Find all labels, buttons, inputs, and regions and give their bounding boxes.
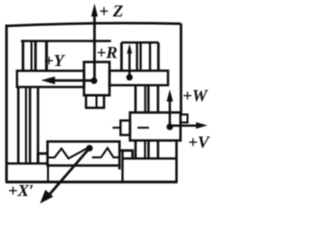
svg-text:+Y: +Y [44, 51, 66, 70]
spindle head block [84, 62, 110, 95]
axis arrow +Y shaft [53, 79, 94, 81]
inner top rail line [21, 40, 111, 42]
axis arrow +V shaft [170, 124, 198, 126]
right base block [121, 151, 123, 183]
dash inside headstock [138, 127, 150, 129]
quill divider [96, 95, 98, 108]
right base top edge [123, 157, 177, 159]
left column upper guideway hatch [23, 41, 47, 72]
machine bed bottom edge [6, 181, 178, 184]
axis arrow +R shaft [128, 50, 130, 77]
axis arrow +R head [127, 44, 132, 54]
axis line +Z shaft [93, 14, 96, 81]
right base right edge [175, 141, 177, 183]
node W/V on headstock [167, 124, 174, 131]
left base right edge [47, 164, 49, 182]
table right edge extension [118, 166, 120, 170]
axis arrow +X' head [40, 190, 53, 204]
axis arrow +X' shaft [46, 148, 90, 199]
left column lower guideway hatch [18, 87, 38, 164]
right column upper guideway hatch [122, 43, 159, 71]
axis arrow +V head [196, 122, 208, 129]
machine outer frame top edge [6, 23, 181, 26]
spindle quill below head [86, 95, 104, 108]
headstock block right [130, 113, 181, 141]
right column mid guideway hatch [136, 85, 159, 112]
left base top edge [7, 162, 49, 164]
axis arrow +Y head [41, 77, 55, 85]
zigzag clamp marks right of node [92, 148, 120, 157]
svg-text:+X′: +X′ [8, 181, 34, 200]
svg-text:+W: +W [183, 86, 210, 105]
node Z/Y on spindle head [91, 77, 98, 84]
cross rail right of spindle head [110, 71, 169, 86]
svg-text:+V: +V [188, 133, 211, 152]
svg-text:+ Z: + Z [99, 2, 123, 21]
node R on cross rail [126, 74, 132, 80]
horizontal ram (Y arm) [17, 71, 84, 87]
spindle center line [113, 127, 121, 129]
zigzag clamp marks left of node [48, 148, 87, 158]
small box right of headstock [181, 115, 188, 123]
work table [48, 142, 120, 166]
notch between table and right base [120, 151, 133, 159]
machine outer frame right edge [180, 24, 183, 115]
axis arrow +W head [167, 90, 173, 102]
node on table (origin of X') [86, 145, 93, 152]
axis arrow +W shaft [169, 100, 171, 127]
spindle nose box left of headstock [121, 121, 131, 136]
axis arrow +Z head [91, 4, 98, 17]
lower-right column hatch below headstock [136, 141, 159, 159]
saddle step box left of table [38, 154, 48, 164]
machine outer frame left edge [5, 25, 8, 182]
svg-text:+R: +R [97, 43, 118, 62]
